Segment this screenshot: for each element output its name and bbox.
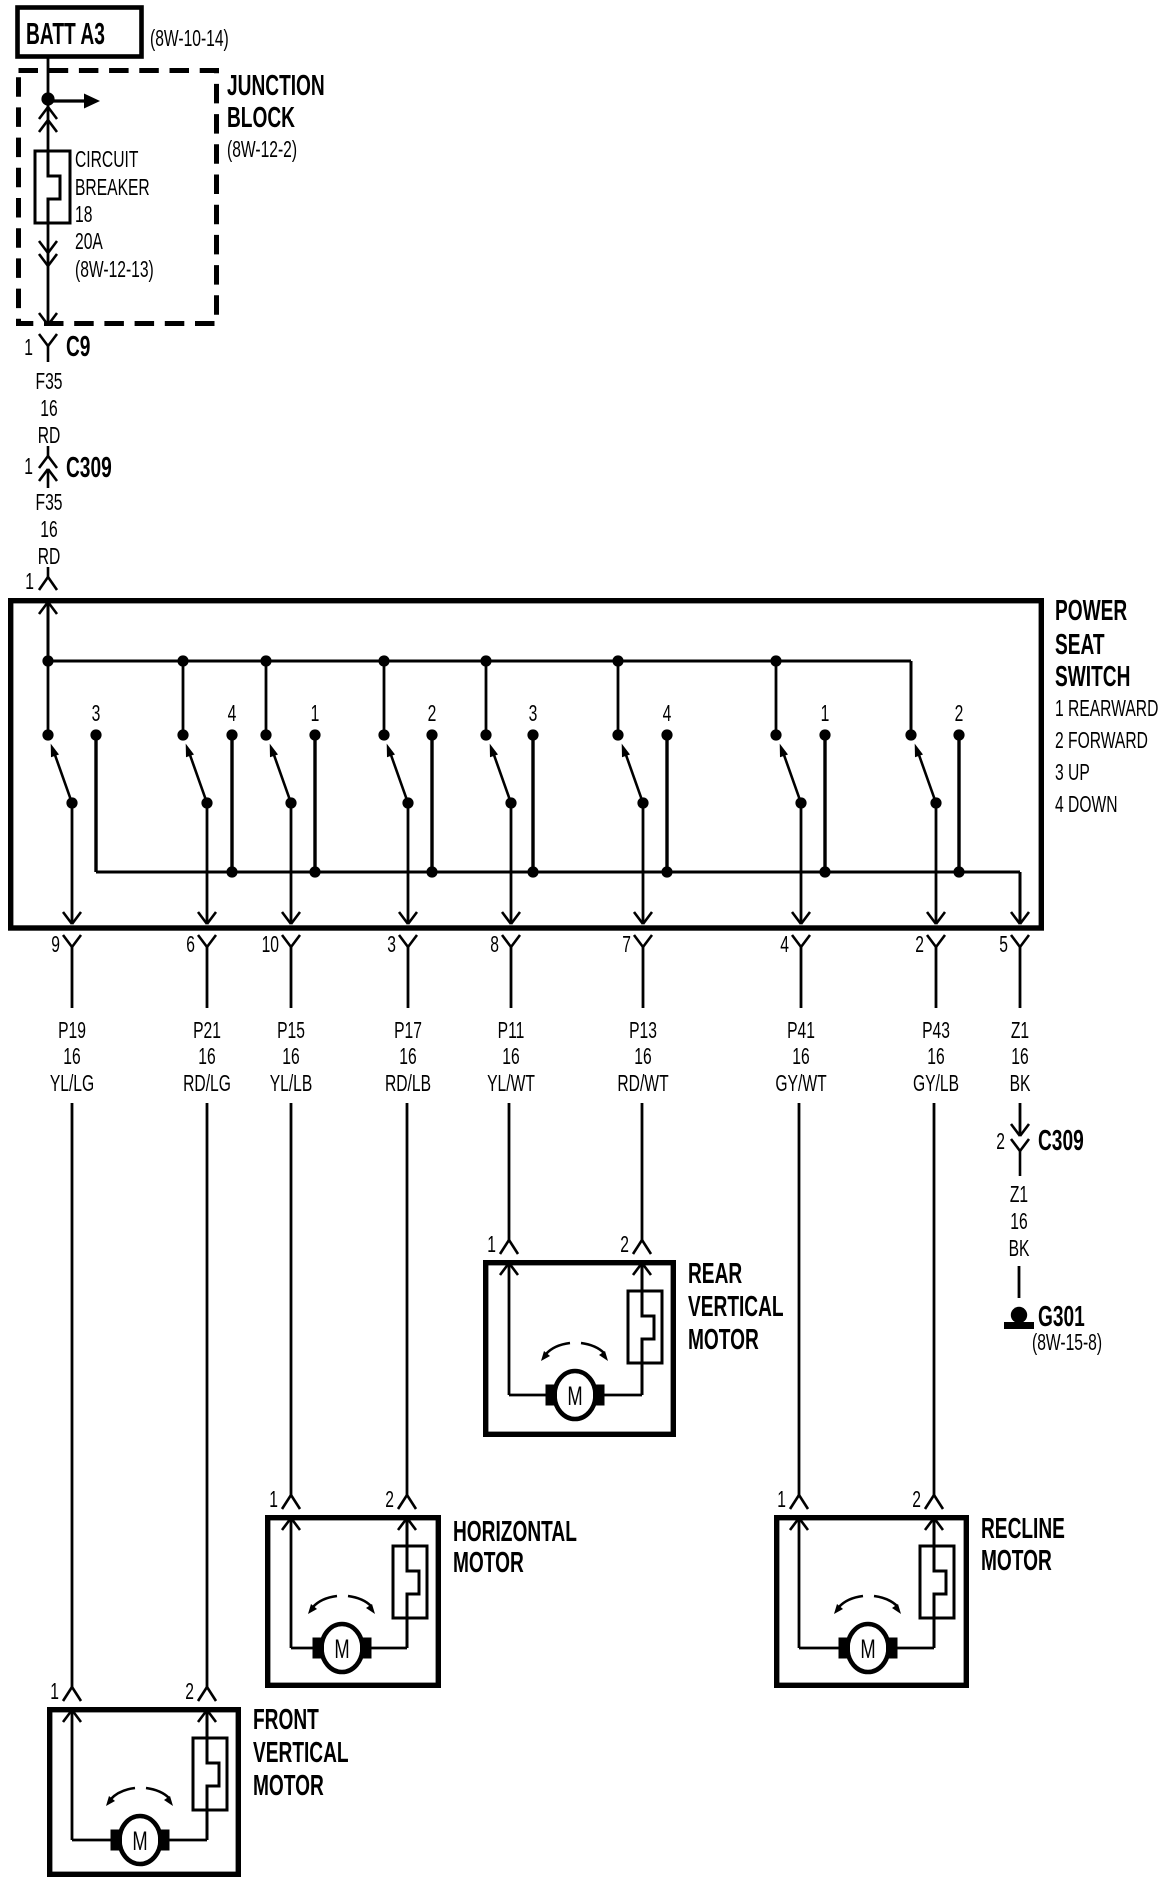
wire contact 2 to rail xyxy=(430,735,433,872)
svg-text:7: 7 xyxy=(622,932,631,958)
exit arrow pin 6 xyxy=(198,912,207,924)
svg-text:BK: BK xyxy=(1009,1236,1030,1262)
wire arm to pin 8 xyxy=(510,803,513,924)
label 3 UP xyxy=(1055,760,1090,786)
svg-text:16: 16 xyxy=(1010,1209,1027,1235)
label (8W-10-14) xyxy=(150,26,229,52)
wire label Z1 16 BK xyxy=(1010,1182,1028,1208)
svg-text:4 DOWN: 4 DOWN xyxy=(1055,792,1118,818)
svg-text:JUNCTION: JUNCTION xyxy=(227,70,325,102)
node rail junction xyxy=(226,866,237,877)
switch S6 feed wire xyxy=(617,661,620,735)
node rail junction xyxy=(527,866,538,877)
svg-text:2: 2 xyxy=(185,1679,194,1705)
connector pin 1 of RECLINE MOTOR xyxy=(790,1495,799,1509)
wire contact 1 to rail xyxy=(313,735,316,872)
label 1 xyxy=(25,569,34,595)
svg-text:2: 2 xyxy=(912,1487,921,1513)
connector pin 2 of FRONT VERTICAL MOTOR xyxy=(198,1687,207,1701)
wire pin 4 xyxy=(800,947,803,1008)
switch S5 feed contact xyxy=(480,729,491,740)
wire label P43 16 GY/LB xyxy=(922,1018,950,1044)
circuit breaker of HORIZONTAL MOTOR xyxy=(393,1546,427,1618)
wire pin 10 xyxy=(290,947,293,1008)
switch S3 pivot node xyxy=(285,797,296,808)
wire label P15 16 YL/LB xyxy=(277,1018,305,1044)
svg-text:C309: C309 xyxy=(1038,1125,1084,1157)
circuit breaker of RECLINE MOTOR xyxy=(920,1546,954,1618)
svg-text:6: 6 xyxy=(186,932,195,958)
wire label P41 16 GY/WT xyxy=(787,1018,815,1044)
exit arrow pin 5 xyxy=(1011,912,1020,924)
svg-text:9: 9 xyxy=(51,932,60,958)
label 2 xyxy=(620,1232,629,1258)
wire arm to pin 7 xyxy=(642,803,645,924)
svg-text:BREAKER: BREAKER xyxy=(75,175,150,201)
svg-text:F35: F35 xyxy=(36,490,63,516)
label 2 xyxy=(955,701,964,727)
svg-text:YL/LG: YL/LG xyxy=(50,1071,94,1097)
exit arrow pin 9 xyxy=(63,912,72,924)
circuit breaker of FRONT VERTICAL MOTOR xyxy=(193,1738,227,1810)
svg-text:YL/WT: YL/WT xyxy=(487,1071,535,1097)
exit arrow pin 3 xyxy=(399,912,408,924)
switch S5 feed wire xyxy=(485,661,488,735)
label 9 xyxy=(51,932,60,958)
svg-text:HORIZONTAL: HORIZONTAL xyxy=(453,1516,577,1548)
exit arrow pin 4 xyxy=(792,912,801,924)
connector C9 xyxy=(39,334,48,346)
switch S1 arm xyxy=(55,755,72,803)
svg-text:1: 1 xyxy=(821,701,830,727)
svg-text:M: M xyxy=(567,1380,582,1410)
svg-text:2: 2 xyxy=(428,701,437,727)
svg-text:P13: P13 xyxy=(629,1018,657,1044)
svg-text:1 REARWARD: 1 REARWARD xyxy=(1055,696,1158,722)
svg-text:(8W-15-8): (8W-15-8) xyxy=(1032,1330,1102,1356)
motor M of HORIZONTAL MOTOR xyxy=(322,1624,363,1672)
wire Z1 to connector C309 xyxy=(1019,1103,1022,1136)
wire label P19 16 YL/LG xyxy=(58,1018,86,1044)
label 4 xyxy=(228,701,237,727)
svg-text:C9: C9 xyxy=(66,331,90,363)
label RECLINE MOTOR xyxy=(981,1513,1065,1545)
svg-text:F35: F35 xyxy=(36,369,63,395)
wire pin 2 xyxy=(935,947,938,1008)
label 3 xyxy=(92,701,101,727)
label G301 xyxy=(1038,1301,1085,1333)
switch S8 feed contact xyxy=(905,729,916,740)
ground G301 xyxy=(1011,1307,1027,1323)
svg-text:(8W-12-13): (8W-12-13) xyxy=(75,257,154,283)
wire label P11 16 YL/WT xyxy=(498,1018,525,1044)
label 2 FORWARD xyxy=(1055,728,1148,754)
svg-text:M: M xyxy=(334,1633,349,1663)
svg-text:RD/LG: RD/LG xyxy=(183,1071,231,1097)
wire pin 5 xyxy=(1019,947,1022,1008)
svg-text:P43: P43 xyxy=(922,1018,950,1044)
label 8 xyxy=(490,932,499,958)
rotation arrows of HORIZONTAL MOTOR xyxy=(313,1596,337,1607)
label 1 xyxy=(311,701,320,727)
circuit breaker of REAR VERTICAL MOTOR xyxy=(628,1291,662,1363)
label 1 xyxy=(269,1487,278,1513)
wire label P13 16 RD/WT xyxy=(629,1018,657,1044)
switch S2 position contact 4 xyxy=(226,729,237,740)
svg-text:5: 5 xyxy=(999,932,1008,958)
label BATT A3 xyxy=(26,18,105,52)
exit arrow pin 2 xyxy=(927,912,936,924)
label CIRCUIT BREAKER 18 20A (8W-12-13) xyxy=(75,147,138,173)
node rail junction xyxy=(309,866,320,877)
svg-text:P17: P17 xyxy=(394,1018,422,1044)
svg-text:2: 2 xyxy=(620,1232,629,1258)
svg-text:VERTICAL: VERTICAL xyxy=(253,1737,349,1769)
connector pin 3 below switch xyxy=(399,935,408,947)
wire pin 9 xyxy=(71,947,74,1008)
svg-text:BK: BK xyxy=(1010,1071,1031,1097)
switch entry arrow xyxy=(39,602,48,614)
svg-text:M: M xyxy=(860,1633,875,1663)
connector pin 8 below switch xyxy=(502,935,511,947)
node bus junction S6 xyxy=(612,655,623,666)
svg-text:3: 3 xyxy=(92,701,101,727)
svg-text:18: 18 xyxy=(75,202,92,228)
wire continuation double chevron xyxy=(39,241,48,253)
label 1 xyxy=(50,1679,59,1705)
wire pin 8 xyxy=(510,947,513,1008)
motor M of FRONT VERTICAL MOTOR xyxy=(120,1816,161,1864)
svg-text:4: 4 xyxy=(663,701,672,727)
rotation arrows of FRONT VERTICAL MOTOR xyxy=(111,1788,135,1799)
wire arm to pin 6 xyxy=(206,803,209,924)
switch S4 feed wire xyxy=(383,661,386,735)
label 1 xyxy=(487,1232,496,1258)
pin 2 entry arrow xyxy=(925,1518,934,1530)
svg-text:MOTOR: MOTOR xyxy=(253,1770,324,1802)
switch S8 position contact 2 xyxy=(953,729,964,740)
wire label P21 16 RD/LG xyxy=(193,1018,221,1044)
switch S1 position contact 3 xyxy=(90,729,101,740)
wire xyxy=(406,1103,409,1495)
wire pin 1 to motor xyxy=(71,1710,74,1840)
svg-text:3 UP: 3 UP xyxy=(1055,760,1090,786)
label (8W-15-8) xyxy=(1032,1330,1102,1356)
connector pin 1 of REAR VERTICAL MOTOR xyxy=(500,1240,509,1254)
switch S2 feed contact xyxy=(177,729,188,740)
connector pin 10 below switch xyxy=(282,935,291,947)
svg-text:(8W-10-14): (8W-10-14) xyxy=(150,26,229,52)
wire xyxy=(71,1103,74,1687)
svg-text:16: 16 xyxy=(399,1044,416,1070)
label 6 xyxy=(186,932,195,958)
node rail junction xyxy=(426,866,437,877)
label 2 xyxy=(185,1679,194,1705)
svg-text:P11: P11 xyxy=(498,1018,525,1044)
switch S7 position contact 1 xyxy=(819,729,830,740)
switch S3 position contact 1 xyxy=(309,729,320,740)
switch S6 arm xyxy=(626,755,643,803)
switch S5 pivot node xyxy=(505,797,516,808)
node bus junction S2 xyxy=(177,655,188,666)
svg-text:RD: RD xyxy=(38,544,61,570)
label 1 xyxy=(821,701,830,727)
switch S5 arm xyxy=(494,755,511,803)
connector pin 1 of FRONT VERTICAL MOTOR xyxy=(63,1687,72,1701)
switch S7 arm xyxy=(784,755,801,803)
wire contact 4 to rail xyxy=(230,735,233,872)
connector pin 1 of HORIZONTAL MOTOR xyxy=(282,1495,291,1509)
svg-text:3: 3 xyxy=(529,701,538,727)
svg-text:VERTICAL: VERTICAL xyxy=(688,1291,784,1323)
switch S3 feed contact xyxy=(260,729,271,740)
svg-text:C309: C309 xyxy=(66,452,112,484)
label 4 xyxy=(780,932,789,958)
wire contact 2 to rail xyxy=(957,735,960,872)
wire arm to pin 10 xyxy=(290,803,293,924)
svg-text:1: 1 xyxy=(24,335,33,361)
label 2 xyxy=(915,932,924,958)
label 2 xyxy=(996,1129,1005,1155)
svg-text:16: 16 xyxy=(927,1044,944,1070)
switch S2 arm xyxy=(190,755,207,803)
svg-text:Z1: Z1 xyxy=(1010,1182,1028,1208)
node bus junction S5 xyxy=(480,655,491,666)
svg-text:M: M xyxy=(132,1825,147,1855)
label 1 xyxy=(24,335,33,361)
label 2 xyxy=(428,701,437,727)
svg-text:Z1: Z1 xyxy=(1011,1018,1029,1044)
wire xyxy=(641,1103,644,1240)
svg-text:RD/WT: RD/WT xyxy=(617,1071,668,1097)
pin 1 entry arrow xyxy=(500,1263,509,1275)
connector pin 2 of RECLINE MOTOR xyxy=(925,1495,934,1509)
wire contact 3 to rail xyxy=(531,735,534,872)
motor M of REAR VERTICAL MOTOR xyxy=(555,1371,596,1419)
svg-text:SEAT: SEAT xyxy=(1055,629,1105,661)
label 1 REARWARD xyxy=(1055,696,1158,722)
label 2 xyxy=(385,1487,394,1513)
node bus junction S3 xyxy=(260,655,271,666)
connector C309 xyxy=(47,446,50,456)
svg-text:10: 10 xyxy=(262,932,279,958)
pin 1 entry arrow xyxy=(63,1710,72,1722)
label 4 DOWN xyxy=(1055,792,1118,818)
switch S2 feed wire xyxy=(182,661,185,735)
switch S3 arm xyxy=(274,755,291,803)
svg-text:MOTOR: MOTOR xyxy=(981,1545,1052,1577)
connector pin 5 below switch xyxy=(1011,935,1020,947)
switch S7 pivot node xyxy=(795,797,806,808)
connector pin 2 of REAR VERTICAL MOTOR xyxy=(633,1240,642,1254)
connector C9 arrow xyxy=(39,313,48,325)
svg-text:16: 16 xyxy=(40,517,57,543)
node rail junction xyxy=(661,866,672,877)
svg-text:1: 1 xyxy=(311,701,320,727)
svg-text:YL/LB: YL/LB xyxy=(270,1071,313,1097)
switch S1 feed wire xyxy=(47,661,50,735)
svg-text:16: 16 xyxy=(634,1044,651,1070)
wire pin 3 xyxy=(407,947,410,1008)
svg-text:20A: 20A xyxy=(75,229,104,255)
wire to ground xyxy=(1018,1266,1021,1298)
svg-text:RECLINE: RECLINE xyxy=(981,1513,1065,1545)
svg-text:RD: RD xyxy=(38,423,61,449)
svg-text:1: 1 xyxy=(25,569,34,595)
svg-text:P15: P15 xyxy=(277,1018,305,1044)
svg-text:(8W-12-2): (8W-12-2) xyxy=(227,137,297,163)
wire arm to pin 9 xyxy=(71,803,74,924)
circuit breaker 18 20A xyxy=(35,151,70,223)
common return rail wire xyxy=(96,871,1020,874)
svg-text:RD/LB: RD/LB xyxy=(385,1071,431,1097)
svg-text:G301: G301 xyxy=(1038,1301,1085,1333)
wire arm to pin 2 xyxy=(935,803,938,924)
switch S4 arm xyxy=(391,755,408,803)
wire contact 3 to rail xyxy=(94,735,97,872)
wire BATT A3 to junction node xyxy=(47,57,50,99)
svg-text:2: 2 xyxy=(955,701,964,727)
junction block dashed border xyxy=(19,71,217,324)
svg-text:16: 16 xyxy=(792,1044,809,1070)
switch S2 pivot node xyxy=(201,797,212,808)
wire xyxy=(798,1103,801,1495)
svg-text:1: 1 xyxy=(24,454,33,480)
label C309 xyxy=(66,452,112,484)
wire continuation double chevron xyxy=(39,107,48,119)
label 3 xyxy=(529,701,538,727)
svg-text:P19: P19 xyxy=(58,1018,86,1044)
wire breaker to motor xyxy=(604,1394,642,1397)
wire contact 4 to rail xyxy=(665,735,668,872)
wire breaker to motor xyxy=(371,1647,407,1650)
svg-text:8: 8 xyxy=(490,932,499,958)
switch S7 feed contact xyxy=(770,729,781,740)
connector C309 pin 2 xyxy=(1011,1124,1020,1136)
switch S7 feed wire xyxy=(775,661,778,735)
label 3 xyxy=(387,932,396,958)
svg-text:16: 16 xyxy=(63,1044,80,1070)
node bus junction S7 xyxy=(770,655,781,666)
REAR VERTICAL MOTOR box xyxy=(486,1263,674,1435)
wire junction node to circuit breaker xyxy=(47,99,50,154)
wire pin 1 to motor xyxy=(798,1518,801,1648)
FRONT VERTICAL MOTOR box xyxy=(50,1710,239,1875)
node rail junction xyxy=(953,866,964,877)
svg-text:REAR: REAR xyxy=(688,1258,742,1290)
node bus junction S1 xyxy=(42,655,53,666)
svg-text:4: 4 xyxy=(228,701,237,727)
svg-text:3: 3 xyxy=(387,932,396,958)
wire xyxy=(206,1103,209,1687)
node rail junction xyxy=(819,866,830,877)
wire xyxy=(508,1103,511,1240)
svg-text:16: 16 xyxy=(40,396,57,422)
exit arrow pin 10 xyxy=(282,912,291,924)
label C309 xyxy=(1038,1125,1084,1157)
svg-text:GY/WT: GY/WT xyxy=(775,1071,826,1097)
svg-text:POWER: POWER xyxy=(1055,595,1127,627)
wire label F35 16 RD xyxy=(36,490,63,516)
svg-text:1: 1 xyxy=(269,1487,278,1513)
label 1 xyxy=(24,454,33,480)
switch S6 feed contact xyxy=(612,729,623,740)
label 4 xyxy=(663,701,672,727)
wire xyxy=(290,1103,293,1495)
switch S1 feed contact xyxy=(42,729,53,740)
svg-text:16: 16 xyxy=(198,1044,215,1070)
connector pin 7 below switch xyxy=(634,935,643,947)
svg-text:CIRCUIT: CIRCUIT xyxy=(75,147,138,173)
switch S8 pivot node xyxy=(930,797,941,808)
connector pin 2 below switch xyxy=(927,935,936,947)
arrow to other junction block circuits xyxy=(50,99,86,102)
label 1 xyxy=(777,1487,786,1513)
pin 1 entry arrow xyxy=(282,1518,291,1530)
wire entry to feed bus xyxy=(47,602,50,661)
svg-text:1: 1 xyxy=(487,1232,496,1258)
rotation arrows of REAR VERTICAL MOTOR xyxy=(546,1343,570,1354)
rail exit wire pin 5 xyxy=(1019,872,1022,924)
wire breaker to motor xyxy=(897,1647,934,1650)
label 5 xyxy=(999,932,1008,958)
label 7 xyxy=(622,932,631,958)
wire breaker to motor xyxy=(169,1839,207,1842)
node bus junction S4 xyxy=(378,655,389,666)
svg-text:2: 2 xyxy=(996,1129,1005,1155)
exit arrow pin 7 xyxy=(634,912,643,924)
label 10 xyxy=(262,932,279,958)
label REAR VERTICAL MOTOR xyxy=(688,1258,742,1290)
svg-text:4: 4 xyxy=(780,932,789,958)
svg-text:2 FORWARD: 2 FORWARD xyxy=(1055,728,1148,754)
svg-text:16: 16 xyxy=(1011,1044,1028,1070)
feed bus wire xyxy=(48,660,911,663)
svg-text:BATT A3: BATT A3 xyxy=(26,18,105,52)
label (8W-12-2) xyxy=(227,137,297,163)
svg-text:MOTOR: MOTOR xyxy=(688,1324,759,1356)
label FRONT VERTICAL MOTOR xyxy=(253,1704,319,1736)
wire contact 1 to rail xyxy=(823,735,826,872)
svg-text:BLOCK: BLOCK xyxy=(227,102,295,134)
svg-text:MOTOR: MOTOR xyxy=(453,1547,524,1579)
switch S4 feed contact xyxy=(378,729,389,740)
wire label P17 16 RD/LB xyxy=(394,1018,422,1044)
switch S6 pivot node xyxy=(637,797,648,808)
HORIZONTAL MOTOR box xyxy=(268,1518,439,1686)
switch S8 arm xyxy=(919,755,936,803)
svg-text:16: 16 xyxy=(502,1044,519,1070)
wire pin 6 xyxy=(206,947,209,1008)
switch S3 feed wire xyxy=(265,661,268,735)
svg-text:16: 16 xyxy=(282,1044,299,1070)
svg-text:2: 2 xyxy=(915,932,924,958)
switch S1 pivot node xyxy=(66,797,77,808)
pin 2 entry arrow xyxy=(633,1263,642,1275)
switch S6 position contact 4 xyxy=(661,729,672,740)
rotation arrows of RECLINE MOTOR xyxy=(839,1596,863,1607)
motor M of RECLINE MOTOR xyxy=(848,1624,889,1672)
switch S4 position contact 2 xyxy=(426,729,437,740)
svg-text:FRONT: FRONT xyxy=(253,1704,319,1736)
label 2 xyxy=(912,1487,921,1513)
svg-text:2: 2 xyxy=(385,1487,394,1513)
svg-text:1: 1 xyxy=(777,1487,786,1513)
connector pin 2 of HORIZONTAL MOTOR xyxy=(398,1495,407,1509)
pin 2 entry arrow xyxy=(398,1518,407,1530)
power feed box BATT A3 xyxy=(18,8,142,57)
exit arrow pin 8 xyxy=(502,912,511,924)
